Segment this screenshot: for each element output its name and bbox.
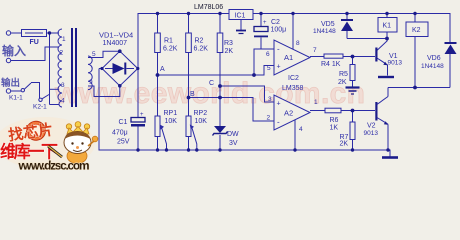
svg-text:K2: K2	[412, 27, 421, 34]
resistor R7	[350, 122, 355, 140]
wire: base node down to R7	[352, 111, 354, 123]
svg-text:C: C	[209, 80, 214, 87]
svg-text:5: 5	[267, 65, 271, 72]
capacitor C1 plates	[131, 118, 145, 123]
switch blade K2-1	[42, 95, 49, 99]
svg-text:+: +	[140, 112, 144, 118]
svg-text:A2: A2	[284, 109, 293, 118]
svg-text:3: 3	[61, 82, 65, 89]
svg-text:V2: V2	[367, 123, 376, 130]
junction: ground rail at RP2	[187, 148, 190, 151]
wire: node A line to op-amp A1 pin 5	[158, 66, 275, 76]
transistor V1 base bar and emitter arrow	[375, 48, 377, 62]
wire: K1 coil bottom to V1 collector	[386, 32, 388, 41]
wire: bridge left vertex to ground rail	[99, 68, 102, 70]
wire: VD6 anode down to V2 collector node line	[449, 54, 451, 88]
wire: V2 emitter lead to ground rail	[377, 118, 388, 125]
diode VD5	[341, 22, 353, 32]
wire: A2 output pin 1 to R6	[310, 110, 325, 112]
junction: bridge right vertex	[136, 67, 139, 70]
wire: V1 emitter lead	[377, 58, 388, 65]
svg-text:C1: C1	[119, 119, 128, 126]
wire: top rail down to R3	[219, 14, 221, 34]
svg-text:9: 9	[89, 79, 93, 86]
svg-text:9013: 9013	[364, 130, 379, 137]
svg-text:VD5: VD5	[321, 21, 335, 28]
watermark: dzsc.com logo	[0, 117, 98, 173]
wire: bridge right vertex down to C1 top plate	[137, 69, 139, 118]
wire: top rail down to C2	[260, 14, 262, 27]
junction: R4/R5/V1 base node	[351, 55, 355, 59]
svg-text:1K: 1K	[330, 125, 339, 132]
potentiometer RP1 wiper arrow	[162, 128, 167, 150]
svg-text:1: 1	[314, 99, 318, 106]
junction: node A	[156, 73, 160, 77]
svg-text:1: 1	[62, 36, 66, 43]
junction: ground rail at RP1	[156, 148, 159, 151]
svg-text:www.dzsc.com: www.dzsc.com	[18, 159, 90, 173]
bridge rectifier inner diode symbol	[113, 63, 125, 74]
capacitor C2 plates	[254, 27, 268, 32]
resistor R3	[217, 33, 223, 53]
wire: VD5 anode across to V1 collector node	[347, 38, 387, 40]
svg-text:+: +	[263, 20, 267, 26]
wire: R1 bottom through node A down to RP1	[157, 53, 159, 117]
wire: RP2 bottom to ground rail	[188, 137, 190, 151]
svg-text:2: 2	[60, 50, 64, 57]
junction: node B	[187, 96, 191, 100]
svg-text:9013: 9013	[388, 60, 403, 67]
wire: R7 bottom to ground rail	[352, 140, 354, 151]
ground: V1 emitter ground bar	[378, 76, 394, 78]
svg-text:A1: A1	[284, 53, 293, 62]
svg-text:A: A	[160, 66, 165, 73]
wire: stub to transformer pin 4	[50, 104, 60, 106]
junction: ground rail at R7	[351, 148, 354, 151]
ground: bottom rail ground bar	[382, 156, 398, 159]
contact pole K1-1	[21, 89, 24, 92]
ground: below R5	[346, 86, 360, 88]
svg-text:6: 6	[266, 51, 270, 58]
wire: K2 coil bottom to V2 collector node	[414, 37, 416, 88]
svg-text:DW: DW	[227, 131, 239, 138]
regulator IC1 box	[229, 10, 253, 20]
wire: V2 collector lead	[377, 97, 388, 105]
terminal: mains input 1	[6, 31, 10, 35]
wire: R4 to V1 base	[343, 56, 375, 58]
junction: A-line to pin 6 branch	[252, 73, 256, 77]
wire: top rail down to VD5 cathode	[346, 14, 348, 22]
junction: B-line crossing DW column	[218, 96, 222, 100]
resistor R6	[325, 108, 341, 113]
svg-text:2K: 2K	[225, 48, 234, 55]
wire: V1 collector lead	[377, 41, 388, 51]
wire: A1 pin 8 supply from top rail	[292, 14, 294, 50]
wire: C2 bottom plate down to pin 6 line	[260, 38, 262, 50]
svg-text:输出: 输出	[1, 77, 20, 89]
svg-text:C2: C2	[271, 19, 280, 26]
svg-text:IC2: IC2	[288, 75, 299, 82]
resistor R1	[155, 33, 161, 53]
junction: ground rail at A2 pin 4	[293, 148, 296, 151]
wire: R2 bottom through node B down to RP2	[188, 53, 190, 117]
junction: VD5/K1/V1 collector node	[385, 37, 389, 41]
svg-text:+: +	[277, 64, 281, 71]
svg-text:R1: R1	[164, 38, 173, 45]
junction: top rail at C2	[259, 12, 262, 15]
transformer T primary winding	[58, 29, 62, 107]
svg-text:B: B	[190, 91, 195, 98]
svg-text:4: 4	[61, 98, 65, 105]
svg-text:输入: 输入	[2, 43, 26, 58]
wire: ground bottom rail	[99, 69, 390, 157]
svg-text:25V: 25V	[117, 139, 130, 146]
junction: top rail at K1	[385, 12, 388, 15]
wire: C1 bottom plate to ground rail	[137, 127, 139, 151]
svg-text:VD6: VD6	[427, 55, 441, 62]
resistor R4	[324, 54, 343, 58]
svg-text:2: 2	[267, 115, 271, 122]
junction: top rail at R3	[218, 12, 221, 15]
wire: output terminal to contact K1-1	[11, 90, 21, 92]
fuse FU	[22, 30, 47, 37]
svg-text:100μ: 100μ	[271, 27, 287, 34]
wire: +6V top rail (IC1 output to right side, corner down to VD6)	[253, 14, 450, 43]
svg-text:470μ: 470μ	[112, 130, 128, 137]
junction: bridge bottom vertex	[118, 84, 122, 88]
svg-text:R2: R2	[195, 38, 204, 45]
wire: K1-1 blade tip down to K2-1 pole	[31, 83, 40, 99]
svg-text:R6: R6	[330, 117, 339, 124]
potentiometer RP1 body	[155, 116, 160, 137]
wire: A1 output pin 7 to R4	[310, 56, 324, 58]
transistor V2 base bar and emitter arrow	[375, 102, 377, 121]
ground: below IC1	[236, 30, 246, 32]
svg-text:IC1: IC1	[235, 12, 246, 19]
svg-text:VD1--VD4: VD1--VD4	[99, 31, 133, 40]
junction: K2 coil at V2 collector line	[413, 86, 417, 90]
junction: ground rail at RP2 wiper	[195, 148, 198, 151]
wire: R3 bottom through node C down to zener DW	[219, 53, 221, 127]
svg-text:4: 4	[299, 126, 303, 133]
wire: A2 pin 4 to ground rail	[294, 120, 296, 150]
svg-text:R5: R5	[339, 71, 348, 78]
resistor R2	[186, 33, 192, 53]
potentiometer RP2 wiper arrow	[192, 128, 197, 150]
wire: top rail down to R2	[188, 14, 190, 34]
wire: node C line to op-amp A2 pin 3	[220, 86, 274, 102]
svg-text:R3: R3	[224, 40, 233, 47]
svg-text:LM358: LM358	[282, 85, 304, 92]
wire: +V top rail (bridge + output to IC1 input)	[138, 14, 229, 69]
svg-text:7: 7	[313, 47, 317, 54]
terminal: mains input 2	[6, 58, 10, 62]
wire: top rail down to relay K2 coil	[414, 14, 416, 23]
wire: V2 collector node horizontal line	[388, 87, 450, 89]
relay coil K2 box	[406, 22, 428, 37]
svg-text:3: 3	[268, 96, 272, 103]
svg-text:-: -	[277, 45, 280, 54]
svg-text:2K: 2K	[338, 79, 347, 86]
junction: top rail at K2	[413, 12, 416, 15]
wire: top rail down to R1	[157, 14, 159, 34]
svg-text:K2-1: K2-1	[33, 104, 47, 111]
relay coil K1 box	[378, 18, 397, 33]
wire: secondary pin 9 around to bridge bottom vertex	[88, 86, 120, 97]
junction: top rail at R1	[156, 12, 159, 15]
svg-text:LM78L06: LM78L06	[194, 4, 223, 11]
wire: R5 bottom to ground symbol	[352, 81, 354, 87]
svg-text:+: +	[277, 101, 281, 108]
op-amp A2 triangle	[274, 95, 310, 130]
svg-text:-: -	[277, 118, 280, 127]
junction: ground rail at DW	[218, 148, 221, 151]
zener diode DW	[214, 126, 226, 133]
svg-text:RP2: RP2	[194, 110, 208, 117]
junction: node C	[218, 84, 222, 88]
svg-text:RP1: RP1	[164, 110, 178, 117]
switch blade K1-1	[24, 83, 31, 89]
junction: ground rail at RP1 wiper	[165, 148, 168, 151]
svg-text:FU: FU	[30, 39, 39, 46]
op-amp A1 triangle	[274, 40, 310, 75]
wire: mains input line 1 to fuse and transformer pin 1	[11, 32, 59, 34]
contact pole K2-1	[39, 98, 42, 101]
svg-text:K1: K1	[383, 23, 392, 30]
wire: node B line to op-amp A2 pin 2	[189, 98, 275, 122]
junction: fuse output node	[48, 31, 51, 34]
junction: top rail at A1 pin 8	[291, 12, 294, 15]
junction: R6/R7/V2 base node	[351, 109, 355, 113]
wire: stub to transformer pin 3	[50, 88, 60, 90]
transformer T core	[71, 28, 73, 107]
diode VD6	[445, 45, 457, 55]
resistor R5	[350, 65, 355, 81]
junction: ground rail at C1	[136, 148, 139, 151]
wire: vertical from fuse node down to tap contacts	[49, 33, 51, 105]
junction: top rail at VD5	[345, 12, 348, 15]
wire: top rail down to relay K1 coil	[386, 14, 388, 18]
wire: secondary pin 5 to bridge top vertex	[88, 51, 120, 57]
svg-text:1N4148: 1N4148	[313, 28, 336, 35]
wire: base node down to R5	[352, 57, 354, 65]
wire: node A up to op-amp A1 pin 6 input	[254, 49, 274, 75]
svg-text:1N4007: 1N4007	[103, 40, 128, 47]
potentiometer RP2 body	[186, 116, 191, 137]
transformer T secondary winding	[88, 56, 92, 90]
wire: RP1 bottom to ground rail	[157, 137, 159, 151]
svg-text:10K: 10K	[165, 118, 178, 125]
svg-text:1N4148: 1N4148	[421, 63, 444, 70]
svg-text:R4 1K: R4 1K	[321, 61, 341, 68]
junction: top rail at R2	[187, 12, 190, 15]
bridge rectifier VD1-VD4 diamond	[102, 51, 138, 86]
svg-text:K1-1: K1-1	[9, 95, 23, 102]
terminal: output	[6, 89, 10, 93]
wire: R6 to V2 base	[341, 110, 375, 112]
wire: IC1 ground pin	[240, 20, 242, 31]
svg-text:10K: 10K	[195, 118, 208, 125]
junction: bridge top vertex	[118, 49, 122, 53]
wire: DW cathode to ground rail	[219, 135, 221, 150]
junction: ground rail at V2 emitter	[386, 148, 389, 151]
junction: bridge left vertex	[100, 67, 103, 70]
svg-text:6.2K: 6.2K	[194, 46, 209, 53]
wire: VD5 anode down	[346, 31, 348, 39]
svg-text:2K: 2K	[340, 141, 349, 148]
wire: mains input line 2 to transformer pin 2	[11, 47, 59, 61]
svg-text:5: 5	[92, 51, 96, 58]
svg-text:3V: 3V	[229, 140, 238, 147]
svg-text:8: 8	[296, 40, 300, 47]
svg-text:6.2K: 6.2K	[163, 46, 178, 53]
